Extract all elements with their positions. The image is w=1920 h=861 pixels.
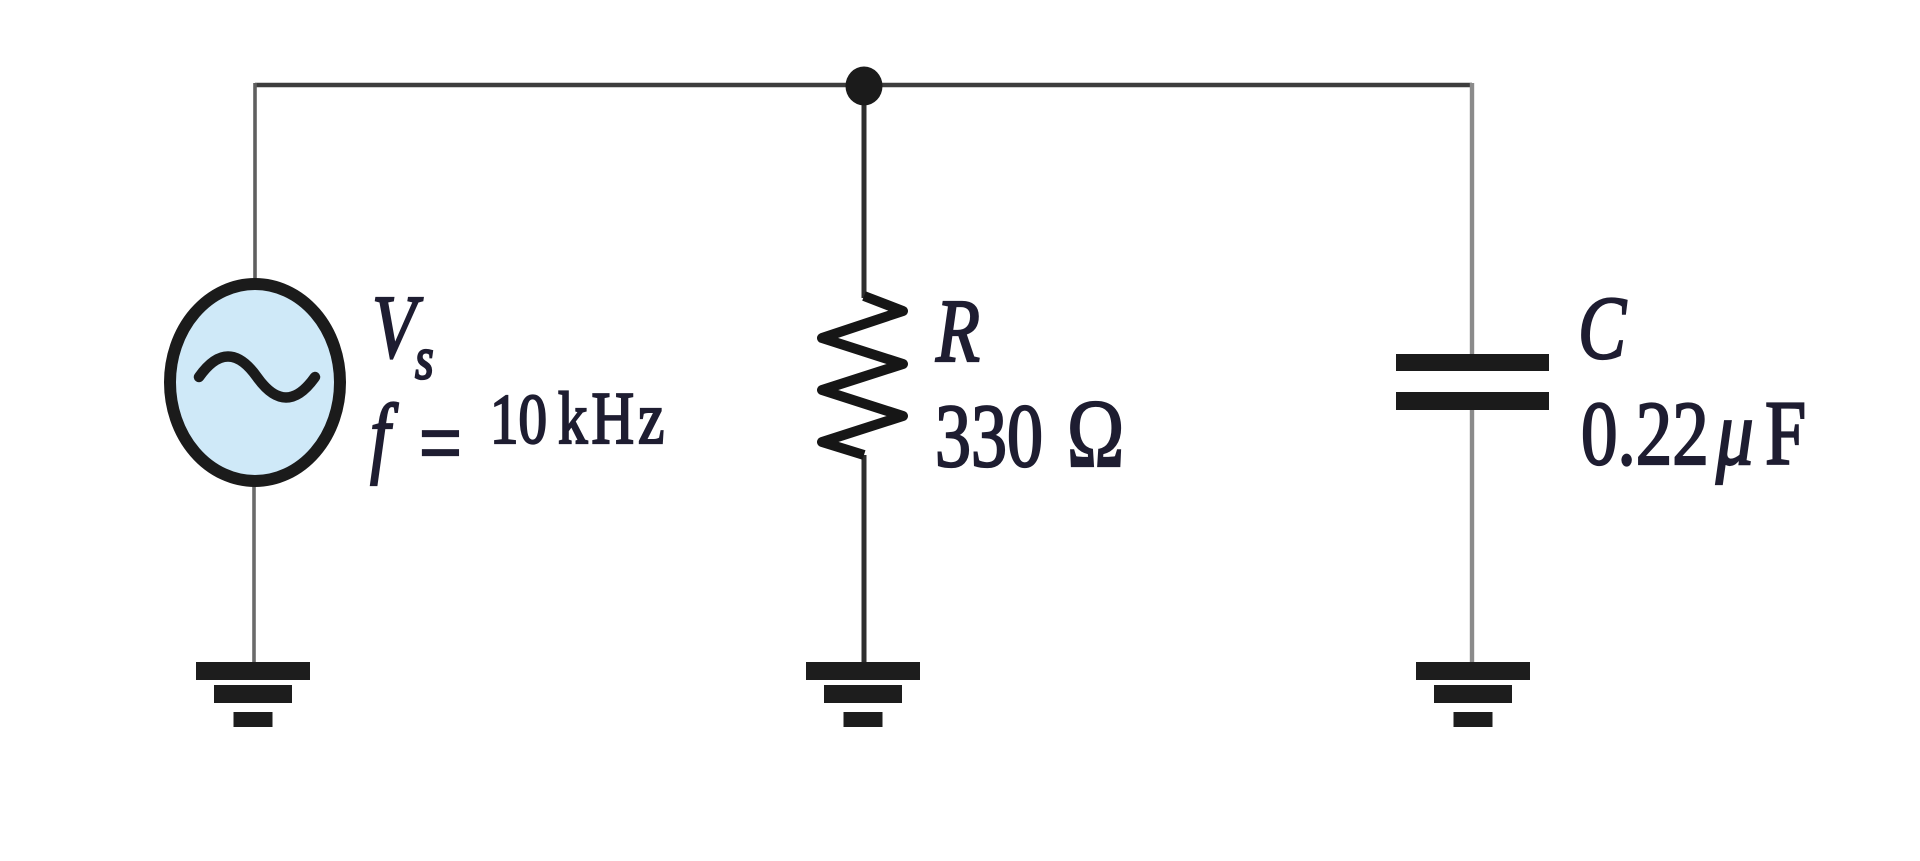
svg-text:μ: μ (1715, 381, 1754, 485)
ground symbol middle (806, 662, 920, 727)
svg-text:s: s (415, 325, 434, 391)
svg-text:330: 330 (935, 385, 1043, 485)
wire source to left ground (252, 482, 256, 666)
svg-text:10: 10 (490, 380, 547, 458)
label f = (370, 385, 462, 495)
svg-text:f: f (370, 385, 399, 485)
wire top horizontal bus (255, 83, 1472, 88)
wire left vertical from bus to source (253, 83, 257, 284)
capacitor C bottom plate (1396, 392, 1549, 410)
svg-text:0.22: 0.22 (1581, 382, 1709, 484)
source Vs ac voltage source circle (170, 284, 340, 481)
svg-text:=: = (419, 390, 462, 496)
label 330 ohm (935, 380, 1124, 487)
svg-text:F: F (1765, 382, 1806, 485)
label 0.22 uF (1581, 381, 1806, 485)
label R (935, 280, 980, 380)
resistor R zigzag (822, 296, 903, 455)
label C (1578, 277, 1627, 377)
wire capacitor to right ground (1470, 405, 1474, 665)
label 10 kHz (490, 378, 668, 460)
wire middle vertical from junction to resistor (862, 85, 867, 298)
svg-text:R: R (935, 280, 980, 380)
label Vs (372, 276, 434, 391)
sine wave inside source (199, 357, 315, 398)
node junction dot (846, 67, 883, 106)
svg-text:Ω: Ω (1067, 380, 1124, 487)
capacitor C top plate (1396, 354, 1549, 371)
svg-text:kHz: kHz (558, 378, 668, 460)
wire right vertical from bus to capacitor (1470, 83, 1474, 358)
svg-text:C: C (1578, 277, 1627, 377)
ground symbol right (1416, 662, 1530, 727)
wire resistor to middle ground (862, 455, 867, 664)
ground symbol left (196, 662, 310, 727)
